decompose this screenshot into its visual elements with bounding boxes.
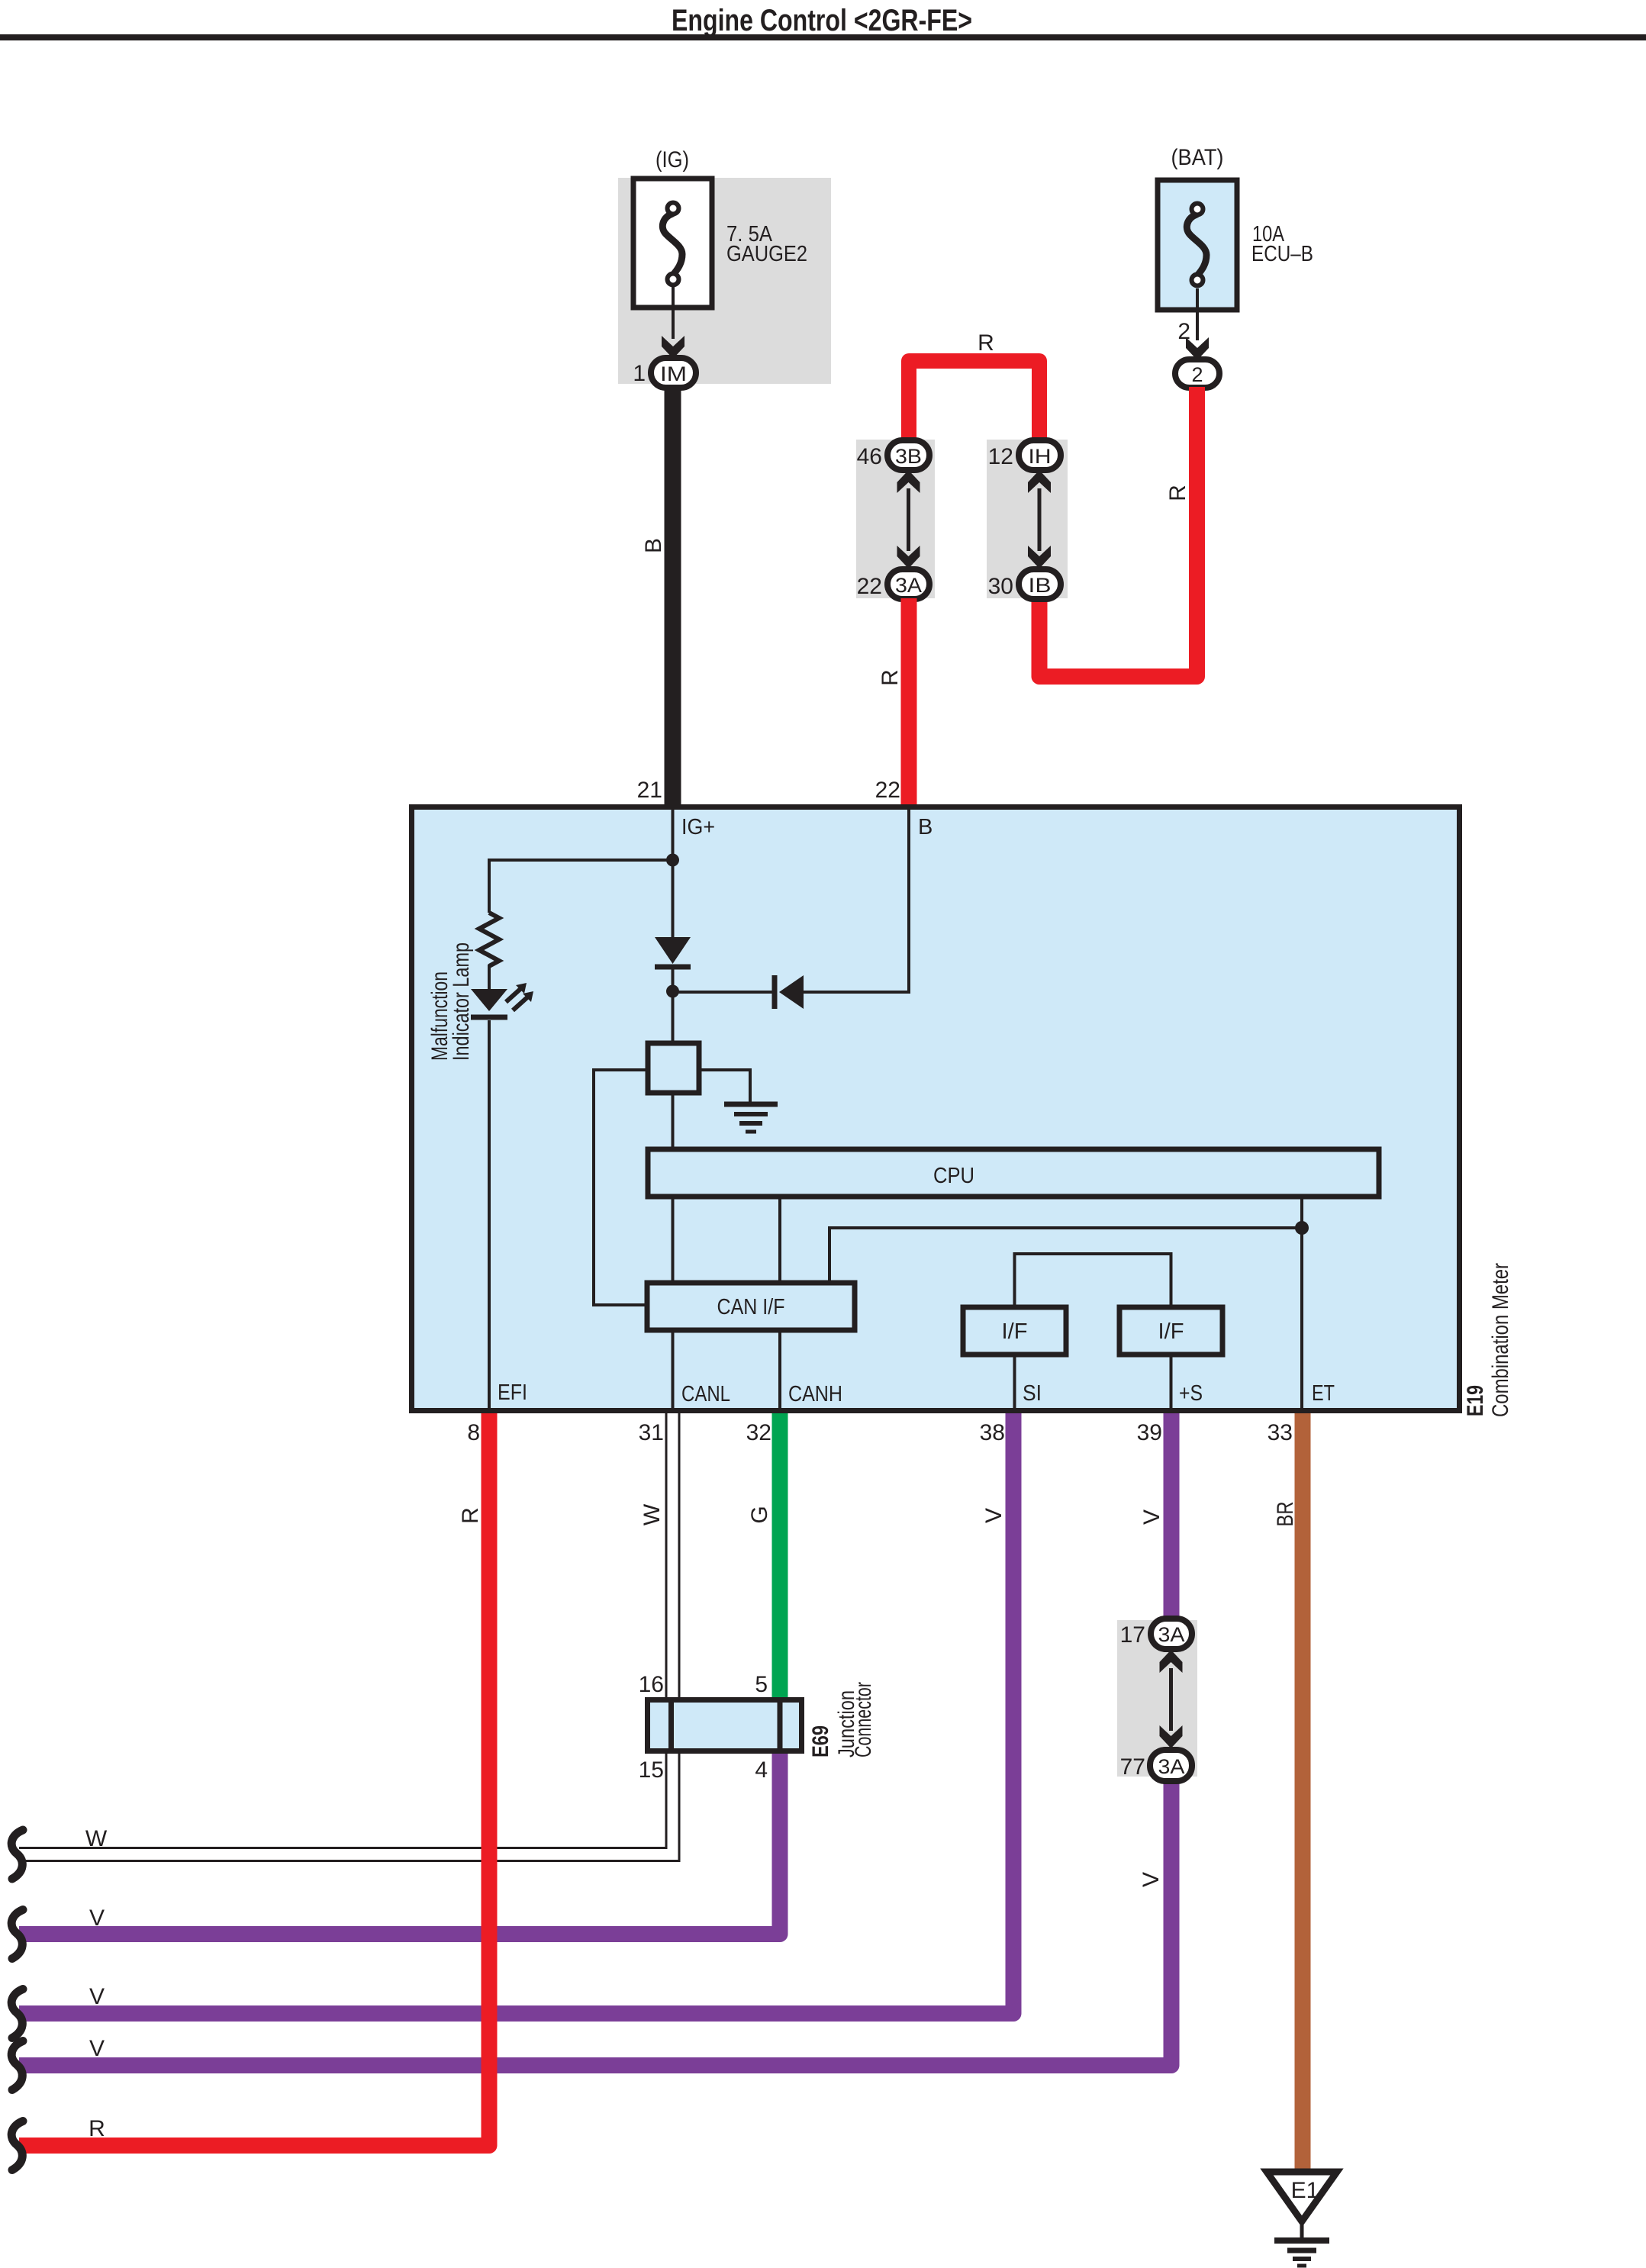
break symbol V3 — [11, 2041, 23, 2090]
svg-text:W: W — [639, 1503, 665, 1525]
fuse GAUGE2 body — [633, 179, 712, 308]
svg-text:33: 33 — [1268, 1420, 1293, 1445]
svg-text:3B: 3B — [895, 445, 922, 468]
svg-text:BR: BR — [1273, 1502, 1298, 1527]
wire V pin39 +S: down through 3A joint and left — [19, 1413, 1171, 2066]
svg-text:I/F: I/F — [1158, 1319, 1184, 1344]
svg-text:Indicator Lamp: Indicator Lamp — [449, 942, 474, 1061]
junction connector E69 — [648, 1700, 802, 1751]
svg-text:ET: ET — [1312, 1381, 1335, 1406]
wire R 3A to pin 22 of meter — [901, 598, 917, 806]
svg-text:R: R — [89, 2116, 105, 2141]
wire G pin32 CANH to E69 pin5 — [772, 1413, 788, 1699]
I/F box SI — [963, 1307, 1066, 1355]
svg-text:17: 17 — [1120, 1622, 1145, 1648]
break symbol V1 — [11, 1910, 23, 1959]
connector IB oval — [1019, 569, 1061, 599]
svg-text:E69: E69 — [808, 1725, 833, 1757]
svg-text:(BAT): (BAT) — [1171, 145, 1224, 170]
svg-text:B: B — [918, 815, 933, 839]
break symbol V2 — [11, 1989, 23, 2038]
break symbol W — [11, 1830, 23, 1879]
I/F box +S — [1119, 1307, 1222, 1355]
svg-text:5: 5 — [755, 1672, 768, 1697]
fuse ECU-B body — [1158, 180, 1237, 310]
svg-text:V: V — [1139, 1509, 1164, 1525]
wire square to CPU — [672, 1095, 675, 1149]
CPU box — [648, 1149, 1379, 1197]
svg-text:V: V — [981, 1508, 1007, 1523]
driver square — [648, 1043, 699, 1093]
wire V pin38 SI: down and left — [19, 1413, 1013, 2014]
ET internal line — [1300, 1199, 1303, 1410]
svg-text:EFI: EFI — [498, 1380, 527, 1405]
line D1 to junction — [672, 967, 675, 1041]
svg-text:R: R — [878, 669, 903, 686]
svg-text:3A: 3A — [1158, 1755, 1185, 1778]
svg-text:B: B — [641, 538, 666, 553]
svg-text:W: W — [85, 1826, 108, 1851]
svg-text:IM: IM — [660, 362, 687, 385]
wire MIL branch — [489, 860, 673, 913]
connector IM — [651, 358, 696, 388]
svg-text:SI: SI — [1023, 1381, 1042, 1406]
svg-text:E19: E19 — [1463, 1385, 1488, 1416]
svg-text:V: V — [89, 2036, 105, 2061]
wire square left branch to CAN I/F — [594, 1070, 647, 1305]
node D1/D2 junction — [666, 985, 679, 998]
svg-text:22: 22 — [857, 574, 882, 599]
svg-text:IG+: IG+ — [681, 815, 715, 839]
svg-text:CPU: CPU — [933, 1164, 974, 1188]
svg-text:32: 32 — [746, 1420, 771, 1445]
wire fuse to connector IM — [672, 287, 675, 339]
CAN I/F box — [647, 1283, 855, 1330]
double arrow 3A-3A — [1160, 1650, 1183, 1673]
connector 3B oval — [887, 440, 929, 470]
ground (internal) — [724, 1102, 778, 1107]
wire CAN I/F to ET node — [829, 1228, 1302, 1281]
svg-text:3A: 3A — [895, 574, 922, 597]
svg-text:4: 4 — [755, 1757, 768, 1783]
svg-text:I/F: I/F — [1002, 1319, 1028, 1344]
svg-text:GAUGE2: GAUGE2 — [726, 242, 807, 266]
svg-text:1: 1 — [633, 361, 646, 386]
svg-text:IH: IH — [1029, 445, 1052, 468]
combination meter box E19 — [412, 807, 1460, 1411]
ground E1 — [1267, 2172, 1337, 2221]
CANH internal line — [778, 1199, 781, 1410]
svg-text:46: 46 — [857, 444, 882, 469]
node ET junction — [1295, 1221, 1309, 1235]
diode D2 (B branch) — [779, 975, 804, 1009]
connector 3A (17) oval — [1151, 1619, 1192, 1649]
svg-text:Combination Meter: Combination Meter — [1488, 1263, 1513, 1417]
svg-text:30: 30 — [988, 574, 1013, 599]
gray panel 3A/3A — [1117, 1620, 1197, 1777]
svg-text:Connector: Connector — [851, 1682, 876, 1757]
gray panel IH/IB — [987, 440, 1068, 598]
svg-text:8: 8 — [467, 1420, 480, 1445]
svg-text:31: 31 — [639, 1420, 664, 1445]
svg-text:21: 21 — [637, 778, 662, 803]
svg-text:V: V — [1139, 1872, 1164, 1887]
svg-text:38: 38 — [980, 1420, 1005, 1445]
svg-text:CANL: CANL — [681, 1382, 730, 1406]
node IG+ junction — [666, 854, 679, 867]
svg-text:3A: 3A — [1158, 1623, 1185, 1646]
resistor MIL — [479, 913, 499, 966]
svg-text:G: G — [747, 1506, 772, 1523]
svg-text:2: 2 — [1191, 363, 1203, 386]
fuse GAUGE2 element — [662, 203, 682, 285]
double arrow IH-IB — [1028, 470, 1051, 493]
svg-text:12: 12 — [988, 444, 1013, 469]
wire fuse to connector 2 — [1196, 288, 1199, 340]
+S internal line — [1170, 1357, 1173, 1410]
diode D1 (IG+ branch) — [655, 937, 691, 964]
wire BR pin33 ET to E1 — [1295, 1413, 1311, 2172]
LED malfunction indicator lamp — [471, 989, 507, 1011]
svg-text:77: 77 — [1120, 1754, 1145, 1780]
svg-text:ECU–B: ECU–B — [1251, 242, 1313, 266]
svg-text:R: R — [458, 1507, 483, 1524]
svg-text:V: V — [89, 1984, 105, 2009]
wire R: ECU-B fuse down, left, up into IB — [1039, 387, 1197, 677]
B internal line — [804, 807, 909, 992]
wire R: top U from IH up, left, down into 3B — [909, 361, 1039, 440]
break symbol R — [11, 2121, 23, 2170]
CANL internal line — [672, 1199, 675, 1410]
svg-text:16: 16 — [639, 1672, 664, 1697]
connector 3A (77) oval — [1150, 1750, 1192, 1781]
wire LED to EFI pin — [488, 1020, 491, 1410]
svg-text:CANH: CANH — [788, 1382, 842, 1406]
svg-text:E1: E1 — [1291, 2178, 1319, 2203]
wire square right branch to ground — [701, 1070, 750, 1102]
fuse ECU-B element — [1187, 204, 1206, 286]
arrow into 2 — [1186, 337, 1209, 360]
svg-text:15: 15 — [639, 1757, 664, 1783]
svg-text:V: V — [89, 1906, 105, 1931]
svg-text:Engine Control <2GR-FE>: Engine Control <2GR-FE> — [672, 4, 972, 37]
svg-text:IB: IB — [1029, 574, 1052, 597]
gray panel behind GAUGE2 fuse — [618, 178, 831, 384]
connector IH oval — [1019, 440, 1061, 470]
line D2 to junction — [673, 991, 775, 994]
wire B black IM to pin 21 — [665, 385, 681, 806]
svg-text:+S: +S — [1179, 1381, 1203, 1406]
wire V pin4 of E69: down and left — [19, 1754, 780, 1935]
connector 3A oval — [887, 569, 929, 599]
gray panel 3B/3A — [856, 440, 935, 598]
arrow into IM — [662, 336, 684, 359]
svg-text:(IG): (IG) — [656, 147, 689, 172]
svg-text:22: 22 — [875, 778, 900, 803]
svg-text:R: R — [1165, 485, 1190, 501]
bracket over I/F boxes — [1015, 1254, 1171, 1305]
svg-text:39: 39 — [1137, 1420, 1162, 1445]
header rule — [0, 34, 1646, 40]
svg-text:R: R — [978, 330, 994, 356]
IG+ internal line — [672, 807, 675, 939]
connector 2 oval — [1175, 359, 1219, 388]
double arrow 3B-3A — [897, 470, 920, 493]
SI internal line — [1013, 1357, 1016, 1410]
wire W pin31: white with outline, down and left — [19, 1413, 673, 1854]
svg-text:CAN I/F: CAN I/F — [717, 1295, 785, 1319]
wire R pin8 EFI: down and left — [19, 1413, 489, 2146]
